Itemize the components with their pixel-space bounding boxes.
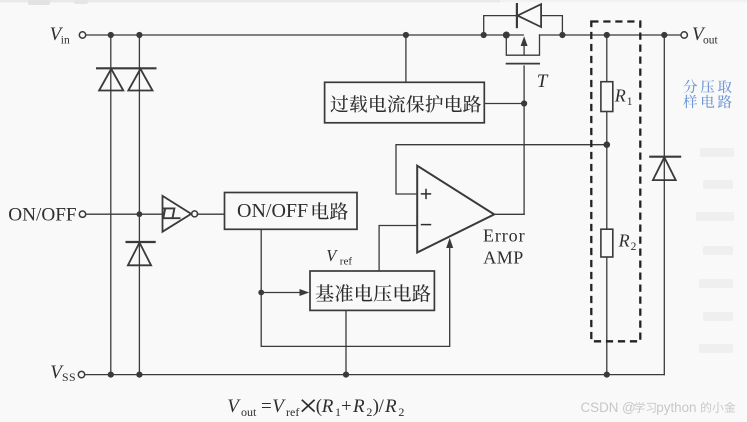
wire R divider branch x=606.8 xyxy=(606,35,608,82)
node gate xyxy=(521,100,527,106)
svg-text:ref: ref xyxy=(286,405,299,419)
svg-text:AMP: AMP xyxy=(483,248,524,268)
wire minus input from reference xyxy=(379,226,417,272)
op-amp minus sign xyxy=(421,224,431,226)
hysteresis mark xyxy=(163,208,181,218)
text 过载电流保护电路 xyxy=(331,95,482,113)
wire right diode branch x=664.3 xyxy=(663,35,665,375)
node R2-VSS xyxy=(604,372,610,378)
op-amp plus sign xyxy=(421,189,431,199)
terminal Vin xyxy=(79,32,85,38)
svg-text:1: 1 xyxy=(627,96,633,108)
wire bypass diode right leg xyxy=(541,16,562,35)
svg-text:2: 2 xyxy=(398,405,404,419)
wire top rail MOSFET to Vout xyxy=(540,34,681,36)
terminal Vout xyxy=(681,32,687,38)
node R1 top xyxy=(604,32,610,38)
wire bypass diode left leg xyxy=(484,16,517,35)
svg-text:R: R xyxy=(614,85,626,105)
cathode bar shared D1 D2 xyxy=(96,67,157,69)
transistor T pass MOSFET xyxy=(506,41,540,64)
svg-text:python: python xyxy=(656,400,696,415)
svg-text:SS: SS xyxy=(62,370,76,384)
node feedback tap xyxy=(604,141,611,148)
wire protection block to gate node xyxy=(484,103,524,105)
gate bar xyxy=(506,63,540,65)
faint bleed-through right margin xyxy=(696,148,734,353)
svg-text:R: R xyxy=(352,396,365,417)
wire op-amp output xyxy=(494,213,525,215)
watermark CSDN xyxy=(581,400,736,415)
blue label 分压取样电路 xyxy=(683,80,731,94)
wire MOSFET source-drain loop xyxy=(506,35,539,55)
svg-text:R: R xyxy=(321,396,334,417)
block overload protection xyxy=(325,82,485,123)
svg-text:out: out xyxy=(241,405,257,419)
node onoff-ref branch xyxy=(258,290,264,296)
node ref-VSS xyxy=(343,372,349,378)
wire arrow into reference block xyxy=(261,292,303,294)
substrate arrow xyxy=(523,41,525,55)
wire reference block bottom to VSS xyxy=(345,310,347,374)
dashed sampling box xyxy=(591,22,640,342)
node Vin-diode1 xyxy=(108,32,114,38)
node Vin-diode2 xyxy=(136,32,142,38)
wire second diode branch x=139.4 xyxy=(138,35,140,375)
resistor R2 xyxy=(601,229,613,257)
wire left diode branch x=110.8 xyxy=(110,35,112,375)
resistor R1 xyxy=(601,82,613,112)
terminal VSS xyxy=(78,371,84,377)
wire gate vertical to op-amp output xyxy=(523,66,525,214)
svg-text:Error: Error xyxy=(483,225,525,245)
text 基准电压电路 xyxy=(316,284,431,302)
node bypass right xyxy=(559,32,565,38)
node VSS-diode1 xyxy=(108,372,114,378)
svg-text:R: R xyxy=(384,396,397,417)
terminal ON/OFF xyxy=(79,211,85,217)
formula Vout = Vref x (R1+R2)/R2 xyxy=(227,396,404,419)
svg-text:@: @ xyxy=(622,400,636,415)
diode D4 (bypass over MOSFET) xyxy=(517,3,541,28)
node right diode top xyxy=(661,32,667,38)
diode D3 (on ON/OFF branch) xyxy=(126,242,156,265)
svg-text:=: = xyxy=(261,396,272,417)
op-amp U1 Error AMP xyxy=(417,166,494,253)
svg-text:+: + xyxy=(341,396,352,417)
arrow into reference block xyxy=(300,289,310,296)
wire ON/OFF input to inverter xyxy=(86,213,162,215)
svg-text:ref: ref xyxy=(340,255,353,267)
node protection tap xyxy=(403,32,409,38)
node VSS-diode2 xyxy=(136,372,142,378)
node source xyxy=(503,32,510,39)
block ON/OFF circuit xyxy=(225,193,358,230)
wire ON/OFF block down then loop to op-amp arrow xyxy=(261,229,450,346)
diode D1 (left, under Vin) xyxy=(99,69,123,91)
svg-text:R: R xyxy=(618,230,630,250)
wire feedback tap to plus input xyxy=(396,145,607,194)
diode D2 xyxy=(96,68,157,90)
svg-text:2: 2 xyxy=(631,241,637,253)
block reference voltage xyxy=(310,271,434,310)
wire inverter to ON/OFF block xyxy=(197,213,224,215)
svg-text:CSDN: CSDN xyxy=(581,400,619,415)
node bypass left xyxy=(481,32,487,38)
svg-text:in: in xyxy=(61,35,70,47)
inverter (Schmitt) xyxy=(163,196,198,232)
svg-text:ON/OFF: ON/OFF xyxy=(237,200,308,222)
svg-text:out: out xyxy=(703,35,719,47)
svg-text:ON/OFF: ON/OFF xyxy=(8,204,76,225)
svg-text:T: T xyxy=(537,71,549,92)
wire top rail Vin to MOSFET xyxy=(86,34,524,36)
node ON/OFF line xyxy=(137,211,143,217)
wire Vin rail down to protection block xyxy=(405,35,407,82)
arrow into op-amp from reference loop xyxy=(446,238,453,248)
wire VSS rail xyxy=(85,374,665,376)
svg-text:2: 2 xyxy=(366,405,372,419)
diode D5 (right, output) xyxy=(649,157,681,180)
svg-text:/: / xyxy=(379,396,385,417)
